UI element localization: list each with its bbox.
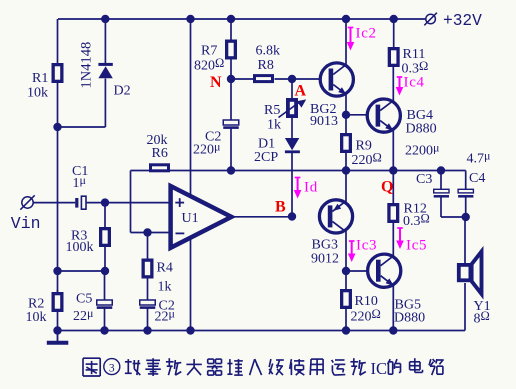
wire R10 top stub <box>345 271 347 289</box>
label R1 value 10k <box>27 86 48 101</box>
svg-text:Ic2: Ic2 <box>356 26 377 42</box>
caption char dian <box>410 358 423 372</box>
wire D2 bottom corner <box>58 79 106 128</box>
current arrow Ic4 <box>396 77 404 96</box>
wire speaker bottom <box>464 283 466 331</box>
svg-text:Ic4: Ic4 <box>404 75 425 91</box>
label BG4 <box>407 108 433 123</box>
node B junction <box>288 212 296 220</box>
node R3-C5 <box>101 267 109 275</box>
svg-text:22μ: 22μ <box>73 306 93 324</box>
capacitor C2b 22u <box>140 300 156 308</box>
wire R1 bottom to node <box>57 83 59 127</box>
label R1 <box>32 71 48 86</box>
wire node A to R5 <box>291 79 293 98</box>
node label A <box>295 83 307 100</box>
wire noninverting input <box>33 202 168 204</box>
svg-text:Vin: Vin <box>11 214 41 233</box>
node rail-BG2C <box>342 15 350 23</box>
svg-text:10k: 10k <box>27 86 48 101</box>
node BG2E-BG4B <box>342 111 350 119</box>
label +32V <box>443 12 482 30</box>
svg-text:R4: R4 <box>157 261 173 276</box>
label R4 value 1k <box>158 280 172 295</box>
transistor BG2 <box>320 63 353 96</box>
caption text IC <box>371 359 388 378</box>
label C2 value 220u <box>193 140 220 158</box>
resistor R7 <box>227 41 236 58</box>
svg-text:Q: Q <box>381 179 393 196</box>
wire R4 to C2b <box>147 278 149 300</box>
label R7 <box>201 44 217 59</box>
wire R9 bottom stub <box>345 153 347 171</box>
node rail-D2 <box>101 15 109 23</box>
wire R2 top stub <box>57 271 59 292</box>
caption char lu <box>429 359 444 375</box>
node R9-BG3E <box>342 166 350 174</box>
svg-text:100k: 100k <box>66 240 94 255</box>
label R12 value 0.3 <box>403 212 430 230</box>
current arrow Ic2 <box>347 28 355 51</box>
resistor R6 <box>151 165 169 171</box>
wire BG5 base link <box>346 270 377 272</box>
label C4 value 4.7u <box>467 149 491 167</box>
resistor R2 <box>53 294 62 311</box>
caption char ji <box>269 359 284 375</box>
svg-text:A: A <box>295 83 307 100</box>
current arrow Ic3 <box>348 241 356 262</box>
transistor BG3 pnp <box>319 200 352 233</box>
label C5 <box>76 292 92 307</box>
svg-text:2CP: 2CP <box>254 150 278 165</box>
svg-text:0.3Ω: 0.3Ω <box>403 212 430 230</box>
wire BG4 emitter to node Q <box>392 131 394 171</box>
label Y1 <box>474 299 491 314</box>
node gnd-C5 <box>100 326 108 334</box>
current arrow Ic5 <box>396 228 404 249</box>
svg-text:R5: R5 <box>264 103 280 118</box>
label C5 value 22u <box>73 306 93 324</box>
resistor R8 <box>255 76 273 82</box>
resistor R10 <box>342 291 351 308</box>
svg-text:Id: Id <box>304 180 318 196</box>
svg-text:R9: R9 <box>356 138 372 153</box>
caption char ru <box>250 359 262 375</box>
wire D1 to node B <box>291 153 293 217</box>
svg-text:10k: 10k <box>26 310 47 325</box>
capacitor C1 <box>75 196 86 209</box>
node label N <box>210 74 222 91</box>
label Ic5 <box>406 238 427 254</box>
transistor BG5 <box>368 254 401 287</box>
node R1-D2 junction <box>53 123 61 131</box>
node label B <box>275 199 286 216</box>
label R4 <box>157 261 173 276</box>
svg-text:C5: C5 <box>76 292 92 307</box>
wire BG2 emitter <box>345 94 347 115</box>
wire left column mid <box>57 127 59 271</box>
svg-text:C4: C4 <box>469 171 485 186</box>
svg-text:D880: D880 <box>394 311 425 326</box>
svg-text:4.7μ: 4.7μ <box>467 149 491 167</box>
wire opamp supply lower <box>190 238 192 331</box>
wire R12 top stub <box>392 171 394 204</box>
wire C4 bottom stub <box>465 197 467 217</box>
terminal +32V <box>424 13 437 26</box>
svg-text:1μ: 1μ <box>73 173 86 191</box>
label U1 <box>182 211 199 226</box>
wire feedback left leg <box>130 171 132 233</box>
wire BG2 collector <box>345 19 347 65</box>
caption char lv <box>145 358 160 376</box>
wire D2 branch top <box>104 19 106 63</box>
label D2 value 1N4148 <box>79 42 95 89</box>
svg-text:R8: R8 <box>258 58 274 73</box>
wire R3 bottom stub <box>104 246 106 271</box>
caption char fang2 <box>350 358 365 375</box>
node rail-R7 <box>227 15 235 23</box>
capacitor C5 <box>97 300 113 308</box>
svg-text:2200μ: 2200μ <box>405 141 439 159</box>
wire BG3 emitter <box>345 171 347 203</box>
current arrow Id <box>294 178 302 199</box>
label D1 value 2CP <box>254 150 278 165</box>
svg-text:Ic5: Ic5 <box>406 238 427 254</box>
svg-text:N: N <box>210 74 222 91</box>
resistor R12 <box>389 205 398 222</box>
node C3-output <box>437 166 445 174</box>
diode D2 <box>98 64 112 78</box>
wire C2 top stub <box>230 79 232 120</box>
label R2 value 10k <box>26 310 47 325</box>
wire inverting input <box>131 232 169 234</box>
svg-text:9012: 9012 <box>311 252 339 267</box>
resistor R9 <box>342 135 351 152</box>
svg-text:220μ: 220μ <box>193 140 220 158</box>
label R5 <box>264 103 280 118</box>
wire C3 top stub <box>440 171 442 190</box>
label D1 <box>258 137 275 152</box>
node R3 tap <box>101 198 109 206</box>
wire R4 top stub <box>147 233 149 259</box>
node inv input <box>143 228 151 236</box>
capacitor C4 4.7u <box>458 189 473 196</box>
wire R2 bottom <box>57 290 59 331</box>
svg-text:8Ω: 8Ω <box>474 309 490 327</box>
node label Q <box>381 179 393 196</box>
node rail-R11 <box>390 15 398 23</box>
label C2 <box>205 130 221 145</box>
resistor R4 <box>143 260 152 277</box>
wire node N to R8 <box>231 78 253 80</box>
label Y1 value 8ohm <box>474 309 490 327</box>
label R7 value 820 <box>194 56 224 74</box>
caption char shi <box>290 359 305 375</box>
label Vin <box>11 214 41 233</box>
svg-text:IC: IC <box>371 359 388 378</box>
label R9 <box>356 138 372 153</box>
svg-text:3: 3 <box>109 362 115 374</box>
label BG3 value 9012 <box>311 252 339 267</box>
svg-text:U1: U1 <box>182 211 199 226</box>
resistor R5 variable <box>279 99 307 117</box>
label Id <box>304 180 318 196</box>
node A junction <box>288 75 296 83</box>
wire C2 bottom stub <box>230 128 232 171</box>
transistor BG4 <box>367 99 400 132</box>
wire R5 to D1 <box>291 118 293 138</box>
label C1 <box>72 164 88 179</box>
node gnd-C2b <box>143 326 151 334</box>
caption char circle-3 <box>104 359 120 375</box>
label D2 <box>114 84 131 99</box>
diode D1 <box>285 138 300 152</box>
svg-text:6.8k: 6.8k <box>256 44 281 59</box>
wire top +32V rail <box>58 18 426 20</box>
label R8 value 6.8k <box>256 44 281 59</box>
svg-text:C3: C3 <box>416 172 432 187</box>
wire ground rail <box>58 330 466 332</box>
wire R8 to node A to BG2 base <box>275 78 331 80</box>
caption char qi <box>207 359 222 375</box>
node gnd-BG5E <box>389 326 397 334</box>
wire R1 branch top <box>57 19 59 63</box>
node Q junction <box>389 166 397 174</box>
caption char shu <box>227 359 242 375</box>
svg-text:Ic3: Ic3 <box>356 238 377 254</box>
resistor R11 <box>389 49 398 66</box>
caption char tu <box>83 358 100 376</box>
wire R3 top stub <box>104 203 106 227</box>
svg-text:22μ: 22μ <box>155 307 175 325</box>
wire BG3 collector <box>345 231 347 271</box>
svg-text:R1: R1 <box>32 71 48 86</box>
caption char yong <box>310 359 323 375</box>
label BG5 <box>395 298 421 313</box>
caption char da <box>186 359 201 375</box>
wire BG5 emitter <box>392 286 394 331</box>
capacitor C3 2200u <box>434 189 449 196</box>
label BG3 <box>312 238 338 253</box>
wire R7 to node N <box>230 59 232 80</box>
label R10 value 220 <box>351 307 381 325</box>
svg-text:1N4148: 1N4148 <box>79 42 95 89</box>
label R5 value 1k <box>267 117 281 132</box>
wire R11 top stub <box>393 19 395 47</box>
svg-text:+32V: +32V <box>443 12 482 30</box>
terminal Vin <box>20 195 34 209</box>
label R11 <box>403 47 426 62</box>
label C3 value 2200u <box>405 141 439 159</box>
label BG2 value 9013 <box>310 114 338 129</box>
wire BG4 base link <box>346 114 377 116</box>
svg-text:R6: R6 <box>152 146 168 161</box>
label Ic3 <box>356 238 377 254</box>
label C2b value 22u <box>155 307 175 325</box>
wire C3 bottom corner <box>441 197 466 217</box>
label R8 <box>258 58 274 73</box>
node R2 top <box>53 267 61 275</box>
label Ic4 <box>404 75 425 91</box>
wire opamp supply upper <box>190 19 192 196</box>
svg-text:1k: 1k <box>267 117 281 132</box>
label C1 value 1u <box>73 173 86 191</box>
label C3 <box>416 172 432 187</box>
wire opamp output to node B <box>232 216 293 218</box>
svg-text:220Ω: 220Ω <box>351 307 381 325</box>
label R9 value 220 <box>352 150 382 168</box>
op-amp U1 <box>171 186 232 248</box>
label R6 value 20k <box>147 133 168 148</box>
wire speaker top <box>464 217 466 264</box>
label R10 <box>355 294 378 309</box>
caption char yun <box>332 360 346 375</box>
wire C5 top stub <box>104 271 106 300</box>
label R11 value 0.3 <box>402 59 429 77</box>
label R6 <box>152 146 168 161</box>
node gnd-supply <box>186 326 194 334</box>
wire BG4 collector <box>392 67 394 107</box>
resistor R1 <box>53 65 62 82</box>
node BG3C-BG5B <box>342 267 350 275</box>
label R12 <box>404 201 427 216</box>
wire R10 bottom stub <box>345 309 347 331</box>
caption char de <box>388 359 401 374</box>
svg-text:220Ω: 220Ω <box>352 150 382 168</box>
label C2b <box>159 299 175 314</box>
svg-text:B: B <box>275 199 286 216</box>
label BG5 value D880 <box>394 311 425 326</box>
label R2 <box>28 297 44 312</box>
svg-text:BG3: BG3 <box>312 238 338 253</box>
node gnd-R2 <box>53 326 61 334</box>
wire R12 to BG5 collector <box>392 223 394 261</box>
svg-text:D2: D2 <box>114 84 131 99</box>
capacitor C2 220u <box>223 120 239 128</box>
svg-text:820Ω: 820Ω <box>194 56 224 74</box>
node N junction <box>227 75 235 83</box>
wire C2b bottom stub <box>147 308 149 331</box>
label R3 value 100k <box>66 240 94 255</box>
wire R7 top <box>230 19 232 40</box>
wire output rail y170 <box>131 170 466 172</box>
svg-text:9013: 9013 <box>310 114 338 129</box>
svg-text:D880: D880 <box>406 122 437 137</box>
caption char fang <box>166 358 181 375</box>
node C2-output <box>227 166 235 174</box>
wire C5 bottom stub <box>104 308 106 331</box>
label R3 <box>71 228 87 243</box>
caption char gong <box>125 359 140 375</box>
label Ic2 <box>356 26 377 42</box>
node rail-supply <box>186 15 194 23</box>
speaker Y1 <box>459 252 482 294</box>
label BG2 <box>310 102 336 117</box>
ground <box>47 331 69 343</box>
svg-text:1k: 1k <box>158 280 172 295</box>
node C3-C4 join <box>462 213 470 221</box>
wire node R2-R3 link <box>58 270 106 272</box>
wire C4 branch corner <box>465 171 467 190</box>
resistor R3 <box>101 229 110 246</box>
node gnd-R10 <box>342 326 350 334</box>
label C4 <box>469 171 485 186</box>
wire R9 top stub <box>345 115 347 133</box>
label BG4 value D880 <box>406 122 437 137</box>
